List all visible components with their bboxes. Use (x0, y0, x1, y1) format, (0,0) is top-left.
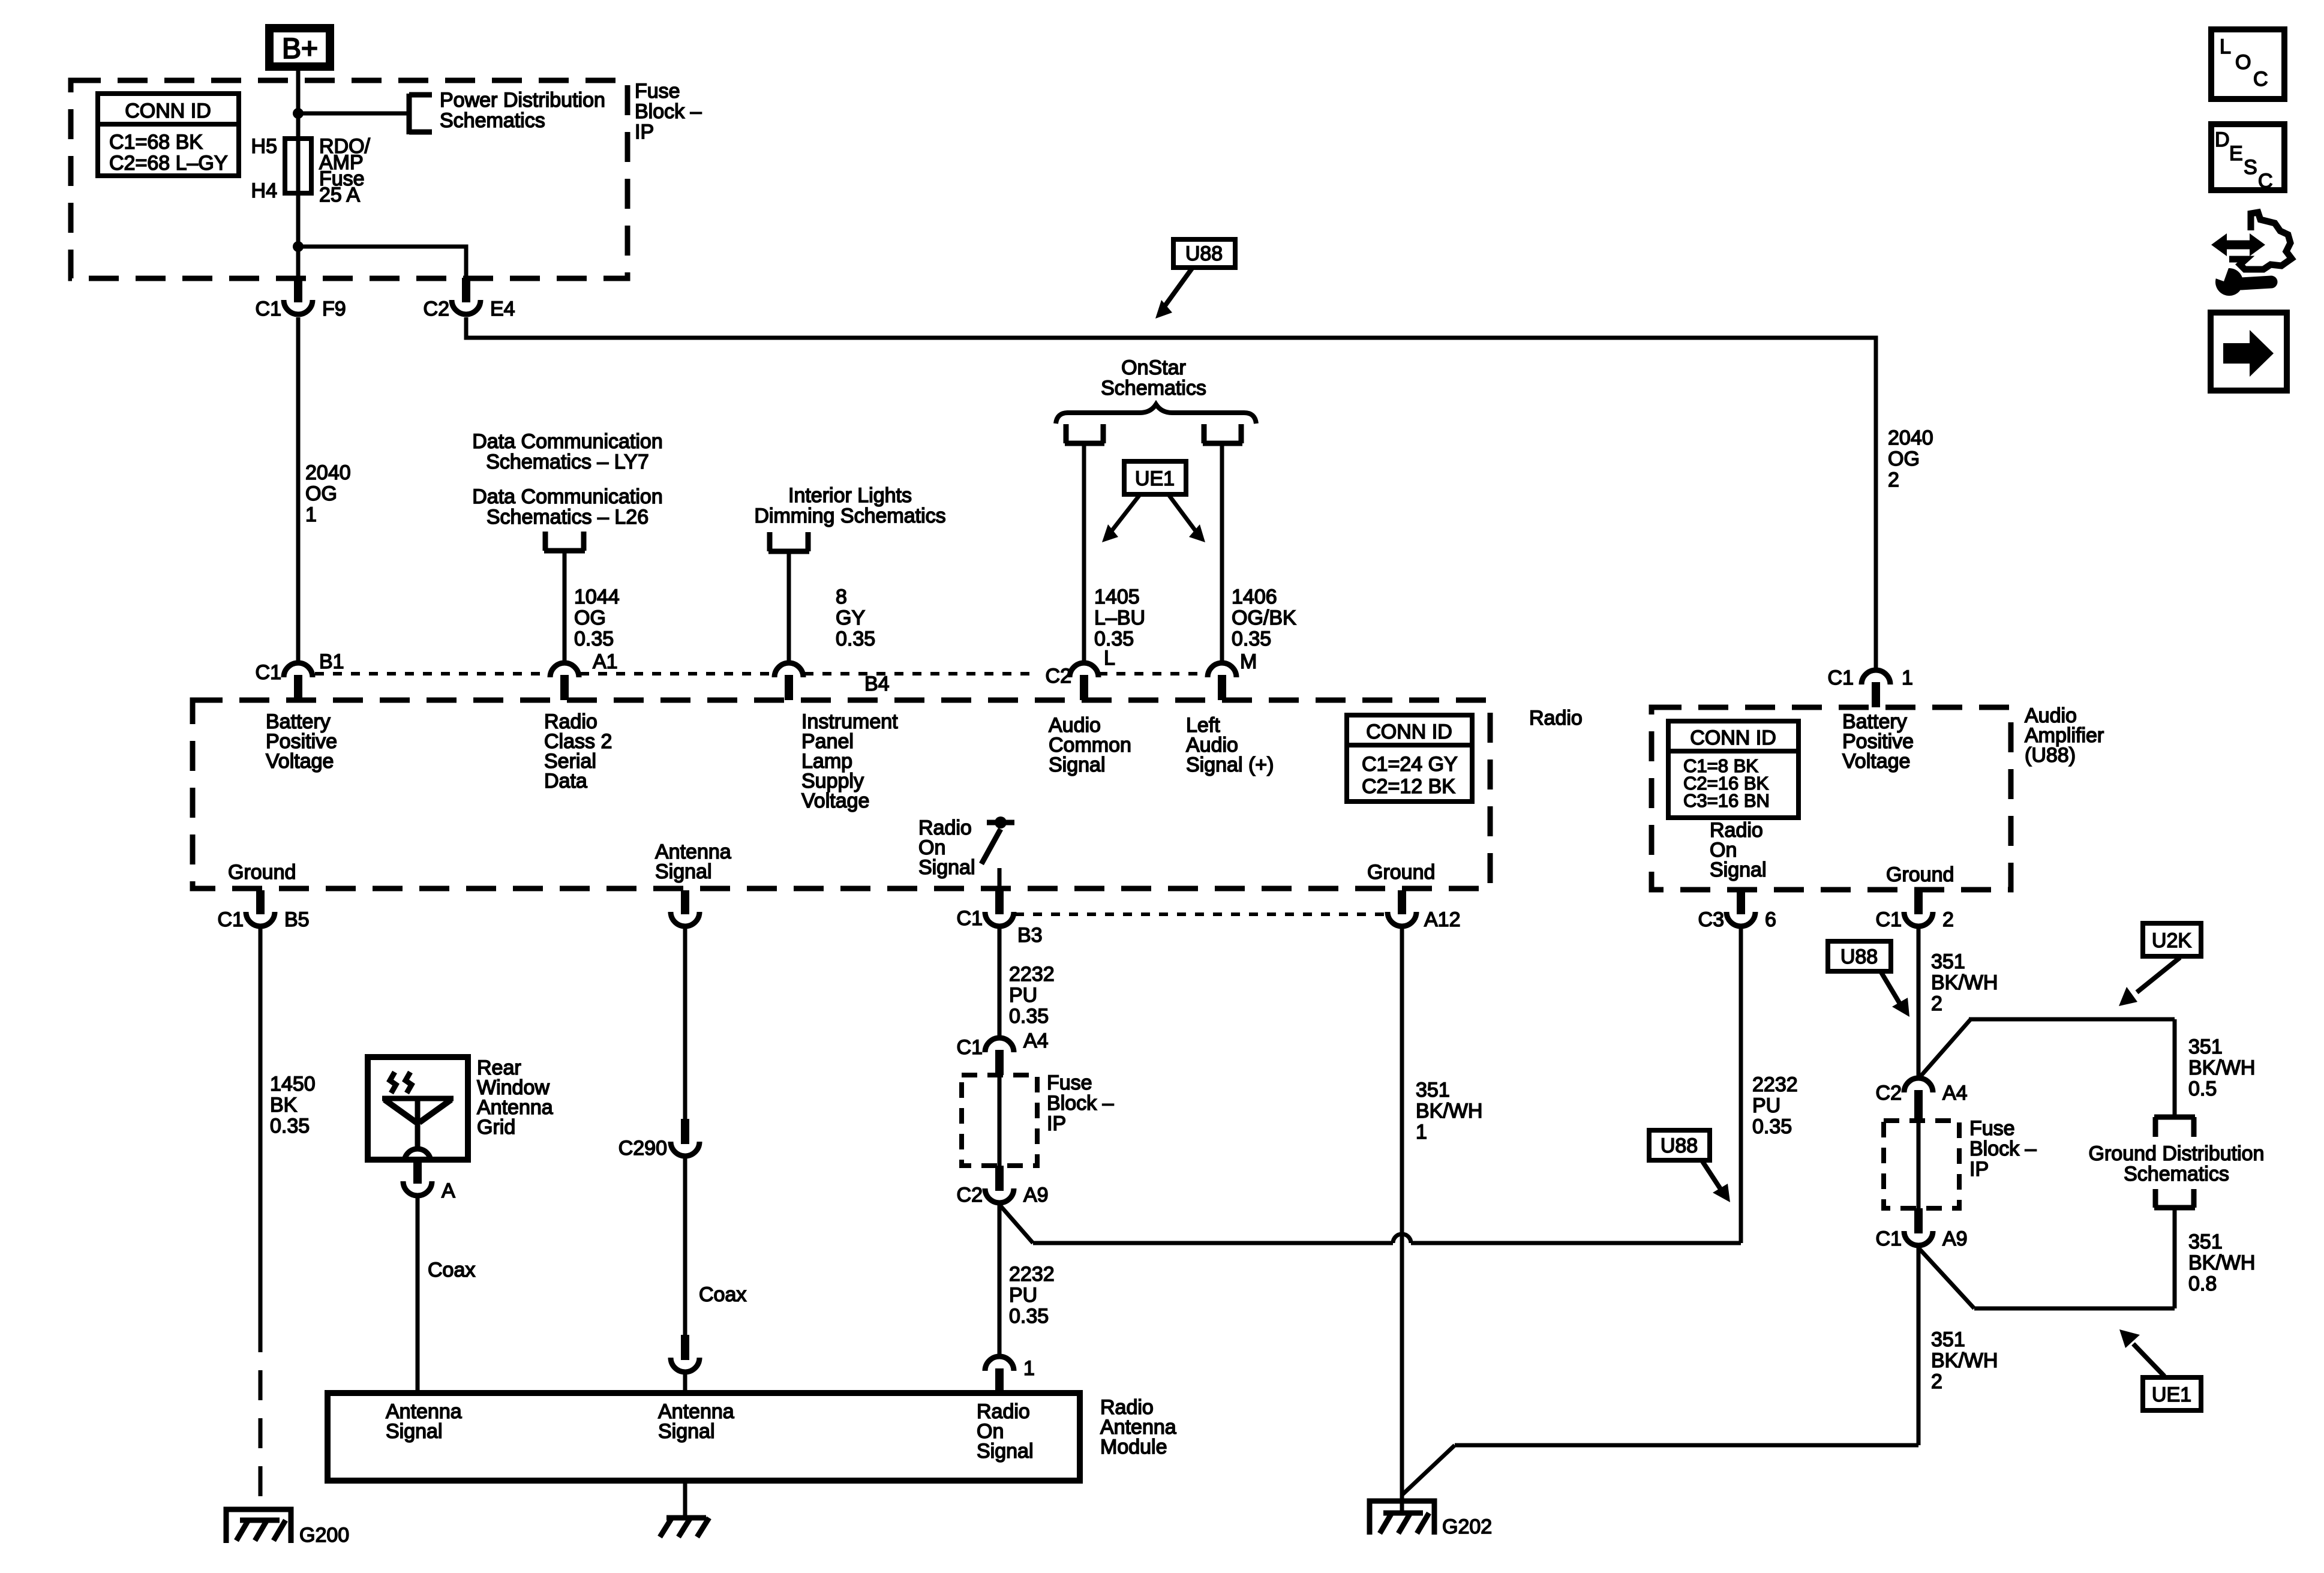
wire loop diagonal to A9 (1918, 1248, 1974, 1308)
icon loose connection (arrows and wrench) (2211, 212, 2292, 296)
wire up to amp C3 (1739, 926, 1743, 1243)
label Radio On Signal (module) (977, 1400, 1034, 1463)
svg-text:BK/WH: BK/WH (1416, 1100, 1482, 1122)
connector C1 A4 (middle) (957, 1029, 1049, 1075)
arrow U88 top (1155, 268, 1193, 319)
svg-text:1: 1 (1416, 1121, 1427, 1143)
wire label 2040 OG 1 (305, 461, 351, 526)
svg-text:351: 351 (1416, 1079, 1450, 1101)
svg-text:OG: OG (1888, 448, 1920, 470)
brace (OnStar) (1056, 404, 1256, 424)
wire label 351 BK/WH 2 (upper) (1931, 950, 1998, 1015)
svg-text:PU: PU (1752, 1094, 1780, 1117)
svg-text:1: 1 (1902, 667, 1913, 689)
svg-text:C1: C1 (957, 907, 983, 930)
arrow U2K (2119, 957, 2180, 1006)
svg-text:C1: C1 (1876, 1227, 1902, 1250)
schematic fork (data communication) (544, 532, 585, 551)
label Instrument Panel Lamp Supply Voltage (801, 710, 898, 812)
connector bus dotted line (top row) (315, 672, 1207, 676)
svg-text:CONN ID: CONN ID (1690, 727, 1776, 749)
svg-text:0.35: 0.35 (1752, 1115, 1792, 1138)
svg-text:U88: U88 (1840, 945, 1878, 968)
svg-text:C1: C1 (256, 298, 281, 320)
CONN ID table (amp) (1668, 721, 1798, 818)
connector C1 1 (amp top) (1828, 667, 1913, 707)
connector C2 A9 (middle) (957, 1166, 1049, 1206)
connector C1 B3 (957, 890, 1043, 947)
module ground wire (683, 1481, 687, 1518)
radio antenna module box (328, 1393, 1080, 1481)
svg-text:0.8: 0.8 (2188, 1272, 2217, 1295)
schematic fork (ground distribution bottom) (2154, 1189, 2195, 1208)
svg-text:C1: C1 (957, 1036, 983, 1059)
svg-text:0.35: 0.35 (1009, 1005, 1049, 1028)
schematic fork (OnStar right) (1203, 424, 1242, 443)
wire label 351 BK/WH 1 (1416, 1079, 1482, 1143)
svg-text:351: 351 (1931, 950, 1965, 973)
svg-text:1406: 1406 (1232, 586, 1277, 608)
wire to power distribution (298, 112, 409, 116)
wire label 2232 PU 0.35 (upper) (1009, 963, 1055, 1028)
arrow U88 right mid (1881, 972, 1909, 1017)
label Battery Positive Voltage (amp) (1842, 710, 1914, 773)
connector C1 2 (amp) (1876, 890, 1954, 931)
svg-text:1450: 1450 (270, 1073, 316, 1095)
wire inside fuse block (right) (1917, 1121, 1921, 1208)
svg-text:Schematics: Schematics (440, 109, 545, 132)
label Data Communication Schematics L26 (472, 485, 662, 529)
svg-text:S: S (2244, 156, 2257, 179)
svg-text:BK/WH: BK/WH (1931, 1349, 1998, 1372)
svg-text:Data Communication: Data Communication (472, 430, 662, 453)
label Audio Common Signal (1049, 714, 1131, 776)
wire label 2232 PU 0.35 (amp) (1752, 1073, 1798, 1138)
svg-text:6: 6 (1765, 908, 1776, 931)
label Fuse Block IP (right) (1969, 1117, 2037, 1181)
connector C1 A9 (right) (1876, 1208, 1968, 1250)
label Antenna Signal (module mid) (658, 1400, 734, 1443)
wire branch to E4 (298, 247, 466, 278)
svg-text:0.35: 0.35 (1009, 1305, 1049, 1328)
wire radio antenna signal down (683, 926, 687, 1119)
svg-text:0.35: 0.35 (836, 628, 875, 650)
wire B5 to G200 (259, 928, 263, 1322)
label Ground Distribution Schematics (2089, 1142, 2265, 1185)
svg-text:Interior Lights: Interior Lights (788, 484, 912, 507)
wire label 351 BK/WH 0.5 (2188, 1035, 2255, 1100)
callout U88 (right mid) (1828, 941, 1891, 971)
wire to module (683, 1372, 687, 1393)
svg-text:E4: E4 (490, 298, 515, 320)
ground (module) (660, 1518, 709, 1537)
svg-text:Block –: Block – (1047, 1092, 1114, 1115)
svg-text:0.35: 0.35 (1232, 628, 1271, 650)
label Radio Class 2 Serial Data (544, 710, 612, 792)
svg-text:UE1: UE1 (1135, 467, 1175, 490)
ground G200 (226, 1509, 349, 1547)
svg-text:C2: C2 (957, 1184, 983, 1206)
svg-text:1: 1 (1023, 1357, 1035, 1380)
svg-text:Voltage: Voltage (801, 789, 869, 812)
schematic fork (OnStar left) (1065, 424, 1104, 443)
svg-text:Signal: Signal (655, 860, 712, 883)
wire label 351 BK/WH 2 (lower) (1931, 1328, 1998, 1393)
svg-text:25 A: 25 A (319, 184, 360, 206)
svg-text:C1: C1 (256, 661, 281, 684)
svg-text:OG: OG (305, 482, 337, 505)
svg-text:Signal: Signal (1710, 858, 1767, 881)
svg-text:A12: A12 (1424, 908, 1461, 931)
fuse F RDO/AMP 25A (285, 139, 311, 193)
svg-text:Signal: Signal (1049, 754, 1106, 776)
svg-text:2: 2 (1931, 1370, 1942, 1393)
wire C1/2 down to A4 (1917, 926, 1921, 1077)
wire A12 to G202 (1400, 926, 1404, 1514)
svg-text:BK/WH: BK/WH (2188, 1251, 2255, 1274)
arrow U88 bottom left (1703, 1161, 1730, 1202)
svg-text:2232: 2232 (1752, 1073, 1798, 1096)
svg-text:Block –: Block – (635, 100, 702, 123)
svg-text:BK/WH: BK/WH (1931, 971, 1998, 994)
svg-text:Module: Module (1100, 1436, 1167, 1458)
svg-text:0.5: 0.5 (2188, 1077, 2217, 1100)
svg-text:2232: 2232 (1009, 963, 1055, 986)
wire hop over A12 wire (1393, 1234, 1411, 1243)
label Fuse Block IP (635, 80, 702, 143)
CONN ID table (fuse block) (98, 94, 239, 176)
label Radio Antenna Module (1100, 1396, 1176, 1458)
wire label 2040 OG 2 (1888, 427, 1933, 491)
svg-text:IP: IP (1969, 1158, 1989, 1181)
audio amplifier dashed box (1652, 707, 2011, 890)
svg-text:A: A (442, 1179, 455, 1202)
wire B3 to A4 (998, 926, 1002, 1037)
connector B4 (774, 663, 890, 700)
connector C1 F9 (256, 278, 346, 320)
svg-text:Ground: Ground (228, 861, 296, 884)
svg-text:IP: IP (635, 121, 654, 143)
radio dashed box (193, 700, 1490, 888)
svg-text:C290: C290 (618, 1137, 667, 1160)
connector C2 A4 (right) (1876, 1078, 1968, 1121)
wire label 1044 OG 0.35 (574, 586, 620, 650)
svg-text:8: 8 (836, 586, 847, 608)
rear window antenna grid box (368, 1057, 468, 1162)
label Audio Amplifier (U88) (2025, 704, 2104, 767)
icon DESC (2211, 124, 2284, 193)
svg-text:1: 1 (305, 503, 317, 526)
svg-text:U88: U88 (1661, 1134, 1698, 1157)
svg-text:Voltage: Voltage (1842, 750, 1910, 773)
wire label 1405 L-BU 0.35 (1094, 586, 1145, 650)
svg-text:U88: U88 (1185, 242, 1223, 265)
callout U88 (top) (1173, 239, 1235, 268)
label Antenna Signal (module left) (386, 1400, 462, 1443)
wire return to G202 (1455, 1443, 1918, 1448)
wire label 8 GY 0.35 (836, 586, 875, 650)
connector A12 (1388, 890, 1461, 931)
icon LOC (2211, 29, 2284, 99)
svg-text:U2K: U2K (2152, 929, 2191, 952)
wire to L (1082, 443, 1086, 662)
svg-text:Fuse: Fuse (635, 80, 680, 103)
callout UE1 (1124, 461, 1186, 494)
icon forward arrow (2211, 313, 2287, 391)
svg-text:Signal (+): Signal (+) (1186, 754, 1274, 776)
svg-text:C2: C2 (1876, 1082, 1902, 1104)
wire branch diagonal to ground loop (1918, 1019, 1971, 1079)
svg-text:D: D (2215, 128, 2230, 151)
svg-text:1044: 1044 (574, 586, 620, 608)
label Power Distribution Schematics (440, 89, 605, 132)
svg-text:G200: G200 (299, 1524, 349, 1547)
svg-text:Ground Distribution: Ground Distribution (2089, 1142, 2265, 1165)
svg-text:C2: C2 (424, 298, 449, 320)
wire loop right lower (2173, 1208, 2177, 1308)
callout U2K (2143, 923, 2201, 956)
wire A9 down to module pin 1 (998, 1203, 1002, 1355)
svg-text:Voltage: Voltage (266, 750, 334, 773)
wire inside fuse block (998, 1075, 1002, 1166)
wire label 1406 OG/BK 0.35 (1232, 586, 1296, 650)
svg-text:Schematics – LY7: Schematics – LY7 (486, 451, 649, 473)
svg-text:L: L (2220, 35, 2231, 58)
svg-text:Signal: Signal (977, 1440, 1034, 1463)
svg-text:Data Communication: Data Communication (472, 485, 662, 508)
svg-text:A4: A4 (1023, 1029, 1049, 1052)
wire loop right upper (2173, 1019, 2177, 1117)
svg-text:Dimming Schematics: Dimming Schematics (754, 505, 945, 527)
switch radio on signal (981, 816, 1014, 890)
svg-text:M: M (1240, 650, 1257, 673)
svg-text:C2=68 L–GY: C2=68 L–GY (109, 152, 228, 175)
label Radio On Signal (radio) (918, 816, 975, 879)
svg-text:Schematics – L26: Schematics – L26 (487, 506, 648, 529)
wire E4 to audio amplifier (466, 317, 1876, 670)
svg-text:G202: G202 (1442, 1515, 1492, 1538)
label Rear Window Antenna Grid (477, 1056, 553, 1139)
svg-text:B+: B+ (282, 33, 318, 65)
connector A1 (550, 650, 618, 700)
svg-text:2: 2 (1931, 992, 1942, 1015)
fuse block IP dashed box (71, 80, 627, 278)
svg-text:Schematics: Schematics (2124, 1163, 2229, 1185)
fuse block IP dashed box (middle) (962, 1075, 1037, 1166)
svg-text:2040: 2040 (1888, 427, 1933, 449)
svg-text:F9: F9 (322, 298, 346, 320)
svg-text:A1: A1 (593, 650, 618, 673)
svg-text:PU: PU (1009, 984, 1037, 1007)
svg-text:351: 351 (2188, 1230, 2223, 1253)
label Data Communication Schematics LY7 (472, 430, 662, 473)
svg-text:OnStar: OnStar (1121, 356, 1186, 379)
svg-text:C1: C1 (1876, 908, 1902, 931)
wire loop top (1969, 1017, 2175, 1022)
svg-text:PU: PU (1009, 1284, 1037, 1307)
svg-text:Schematics: Schematics (1101, 377, 1206, 400)
svg-text:H4: H4 (251, 179, 277, 202)
schematic fork (interior lights) (768, 532, 809, 551)
svg-text:Signal: Signal (386, 1420, 443, 1443)
connector C3 6 (amp) (1698, 890, 1776, 931)
svg-text:Fuse: Fuse (1047, 1071, 1092, 1094)
svg-text:Signal: Signal (918, 856, 975, 879)
svg-text:C2: C2 (1046, 665, 1071, 688)
label Left Audio Signal (+) (1186, 714, 1274, 776)
svg-text:B5: B5 (284, 908, 310, 931)
wire loop bottom (1974, 1307, 2175, 1311)
svg-text:A9: A9 (1942, 1227, 1968, 1250)
label OnStar Schematics (1101, 356, 1206, 400)
svg-text:Fuse: Fuse (1969, 1117, 2015, 1140)
svg-text:BK/WH: BK/WH (2188, 1056, 2255, 1079)
svg-text:B4: B4 (864, 673, 890, 695)
svg-text:2040: 2040 (305, 461, 351, 484)
arrow UE1 right side (2119, 1329, 2164, 1376)
svg-text:A9: A9 (1023, 1184, 1049, 1206)
svg-text:Coax: Coax (699, 1283, 746, 1306)
junction dot (293, 108, 304, 119)
wire to A1 (563, 551, 567, 662)
connector antenna signal (radio) (671, 890, 699, 926)
svg-text:Grid: Grid (477, 1116, 515, 1139)
schematic fork (ground distribution top) (2154, 1117, 2195, 1137)
svg-text:C1=24 GY: C1=24 GY (1362, 753, 1458, 776)
svg-text:351: 351 (1931, 1328, 1965, 1351)
svg-text:Power Distribution: Power Distribution (440, 89, 605, 112)
svg-text:B1: B1 (319, 650, 344, 673)
svg-text:BK: BK (270, 1094, 298, 1116)
svg-text:Ground: Ground (1886, 863, 1954, 886)
arrow UE1 left (1102, 496, 1139, 542)
node B+ battery positive terminal (265, 24, 334, 71)
svg-text:L: L (1104, 647, 1115, 670)
connector C2 E4 (424, 278, 515, 320)
svg-text:2: 2 (1942, 908, 1954, 931)
label Radio On Signal (amp) (1710, 819, 1767, 881)
arrow UE1 right (1169, 496, 1205, 542)
svg-text:C1: C1 (1828, 667, 1854, 689)
svg-text:2232: 2232 (1009, 1263, 1055, 1286)
connector coax inline (671, 1335, 699, 1372)
svg-text:C3: C3 (1698, 908, 1724, 931)
label Antenna Signal (radio) (655, 840, 731, 883)
svg-text:OG/BK: OG/BK (1232, 607, 1296, 629)
svg-text:CONN ID: CONN ID (125, 100, 211, 122)
wire C290 down (683, 1156, 687, 1335)
svg-text:(U88): (U88) (2025, 744, 2076, 767)
svg-text:OG: OG (574, 607, 606, 629)
svg-text:0.35: 0.35 (270, 1115, 310, 1137)
fuse block IP dashed box (right) (1884, 1121, 1959, 1208)
callout UE1 (right) (2143, 1377, 2201, 1410)
ground G202 (1370, 1501, 1492, 1538)
connector C2 L (1046, 647, 1115, 700)
svg-text:C1=68 BK: C1=68 BK (109, 131, 203, 154)
wire label 1450 BK 0.35 (270, 1073, 316, 1137)
svg-text:A4: A4 (1942, 1082, 1968, 1104)
wire label 2232 PU 0.35 (lower) (1009, 1263, 1055, 1328)
svg-text:GY: GY (836, 607, 865, 629)
svg-text:Radio: Radio (1529, 707, 1583, 730)
svg-text:Ground: Ground (1367, 861, 1435, 884)
connector A (antenna grid) (403, 1160, 455, 1202)
svg-text:L–BU: L–BU (1094, 607, 1145, 629)
connector C290 (618, 1119, 699, 1160)
label Fuse Block IP (middle) (1047, 1071, 1114, 1135)
label Battery Positive Voltage (266, 710, 337, 773)
wire A9 down (1917, 1245, 1921, 1445)
label Interior Lights Dimming Schematics (754, 484, 945, 527)
svg-text:C2=12 BK: C2=12 BK (1362, 775, 1455, 798)
svg-text:Coax: Coax (428, 1259, 475, 1281)
svg-text:C1: C1 (218, 908, 244, 931)
wire to B4 (787, 551, 791, 662)
svg-text:C3=16 BN: C3=16 BN (1683, 790, 1770, 811)
svg-text:0.35: 0.35 (574, 628, 614, 650)
connector M (1208, 650, 1257, 700)
callout U88 (bottom left) (1649, 1130, 1710, 1160)
svg-text:UE1: UE1 (2152, 1383, 2191, 1406)
svg-text:C: C (2253, 68, 2268, 91)
svg-text:C: C (2258, 170, 2273, 193)
svg-text:1405: 1405 (1094, 586, 1140, 608)
svg-text:B3: B3 (1017, 924, 1043, 947)
wire B+ to fuse (296, 71, 301, 278)
svg-text:H5: H5 (251, 135, 277, 158)
connector 1 (module) (985, 1356, 1035, 1392)
svg-text:CONN ID: CONN ID (1366, 721, 1452, 743)
svg-text:Signal: Signal (658, 1420, 715, 1443)
junction dot (293, 241, 304, 252)
svg-text:IP: IP (1047, 1112, 1066, 1135)
svg-text:E: E (2229, 142, 2243, 165)
svg-text:Data: Data (544, 770, 587, 792)
svg-text:2: 2 (1888, 469, 1899, 491)
connector C1 B5 (218, 890, 310, 931)
wire A to module (416, 1198, 420, 1393)
connector bus dotted line (bottom row) (1015, 912, 1386, 916)
wire label 351 BK/WH 0.8 (2188, 1230, 2255, 1295)
wire horizontal to amp C3 with hop (1033, 1241, 1393, 1245)
wire F9 to B1 (296, 317, 301, 662)
svg-text:O: O (2235, 51, 2251, 74)
wire branch A9 diagonal (999, 1205, 1033, 1243)
svg-text:351: 351 (2188, 1035, 2223, 1058)
svg-text:Block –: Block – (1969, 1137, 2037, 1160)
connector C1 B1 (256, 650, 344, 700)
CONN ID table (radio) (1347, 715, 1472, 801)
wire to M (1220, 443, 1224, 662)
schematic fork (power distribution) (409, 94, 432, 134)
